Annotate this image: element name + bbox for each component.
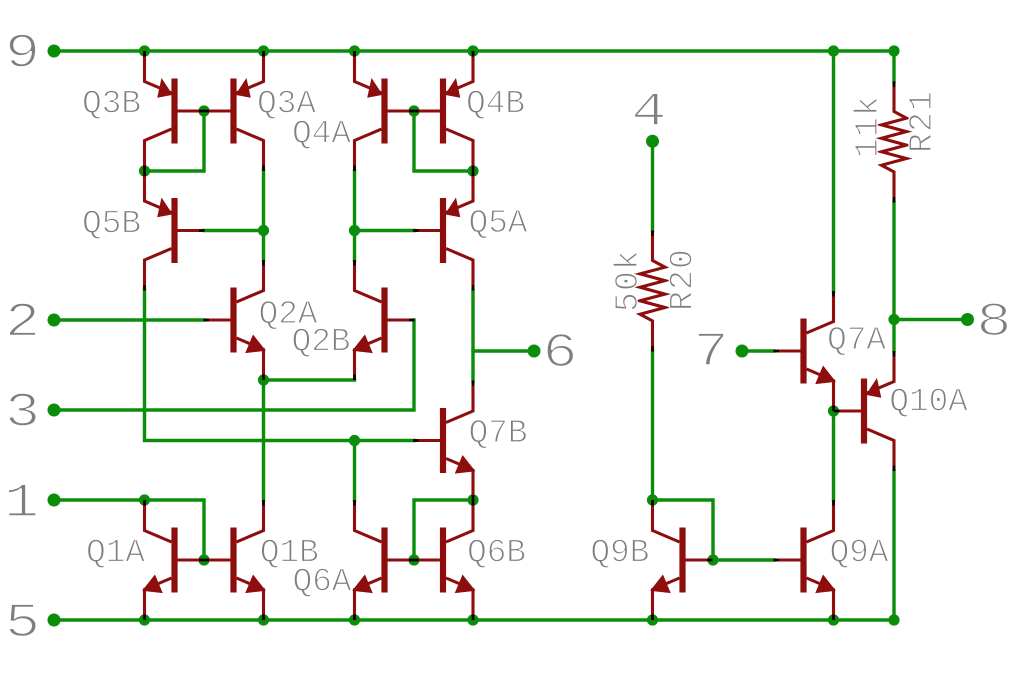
wire Q4 base tie to Q4B collector — [414, 111, 473, 171]
transistor Q2B — [354, 260, 415, 380]
junction at 144.5,51 — [139, 45, 150, 56]
svg-text:Q4B: Q4B — [466, 86, 525, 123]
junction at 144.5,171 — [139, 165, 150, 176]
wire pin 3 to Q2B base — [54, 320, 414, 410]
wire Q7A emitter to Q9A collector — [832, 411, 835, 500]
transistor Q3B — [145, 51, 205, 171]
junction at 833.5,620 — [828, 614, 839, 625]
svg-text:4: 4 — [631, 85, 666, 140]
node pin 4 — [646, 135, 659, 148]
junction at 652.5,620 — [647, 614, 658, 625]
junction at 263.5,230.5 — [258, 225, 269, 236]
node pin 7 — [736, 345, 749, 358]
resistor R20 — [640, 231, 665, 352]
wire Q4A collector to Q2B collector — [353, 171, 356, 260]
wire Q5A base to node — [355, 229, 415, 232]
junction at 833.5,411 — [828, 405, 839, 416]
transistor Q2A — [204, 260, 265, 380]
wire node to Q6A collector — [353, 441, 356, 501]
junction at 204,560 — [198, 554, 209, 565]
junction at 473,51 — [467, 45, 478, 56]
transistor Q1B — [204, 500, 265, 620]
svg-text:3: 3 — [5, 386, 40, 441]
wire node to pin 6 — [473, 349, 534, 352]
transistor Q10A — [834, 351, 894, 471]
wire Q10A collector down to rail 5 — [892, 471, 895, 620]
node pin 6 — [528, 345, 541, 358]
wire Q3 base tie to Q3B collector — [145, 111, 205, 171]
svg-text:50k: 50k — [610, 249, 647, 312]
svg-text:Q7B: Q7B — [469, 415, 528, 452]
junction at 414,560 — [408, 554, 419, 565]
wire R21 bottom to Q10A emitter — [892, 203, 895, 352]
wire R20 node to Q9 base junction — [653, 500, 714, 560]
resistor R21 — [882, 82, 907, 203]
transistor Q6B — [413, 500, 474, 620]
node pin 3 — [48, 404, 61, 417]
node pin 8 — [961, 313, 974, 326]
svg-text:Q10A: Q10A — [889, 384, 968, 421]
svg-text:Q5A: Q5A — [469, 205, 528, 242]
junction at 354.5,440.5 — [349, 435, 360, 446]
transistor Q4A — [355, 51, 415, 171]
wire Q5A collector to Q7B collector — [471, 291, 474, 381]
svg-text:7: 7 — [693, 325, 728, 380]
wire pin 7 to Q7A base — [742, 349, 774, 352]
svg-text:6: 6 — [542, 326, 577, 381]
wire node to pin 8 — [894, 318, 968, 321]
junction at 894,51 — [888, 45, 899, 56]
svg-text:Q6A: Q6A — [293, 564, 352, 601]
wire Q5B base to node — [204, 229, 264, 232]
svg-text:9: 9 — [5, 27, 40, 82]
wire Q9 base junction to Q9A base — [713, 558, 774, 561]
svg-text:5: 5 — [5, 596, 40, 651]
wire rail to R21 top — [892, 51, 895, 82]
junction at 144.5,500 — [139, 494, 150, 505]
node pin 5 — [48, 614, 61, 627]
transistor Q4B — [413, 51, 473, 171]
junction at 354.5,51 — [349, 45, 360, 56]
wire Q2A emitter to Q2B emitter — [264, 378, 355, 381]
transistor Q1A — [144, 500, 205, 620]
svg-text:Q6B: Q6B — [467, 535, 526, 572]
svg-text:Q4A: Q4A — [292, 116, 351, 153]
pin connection ticks — [145, 51, 895, 620]
junction at 414,111 — [408, 105, 419, 116]
junction at 473,171 — [467, 165, 478, 176]
node pin 2 — [48, 314, 61, 327]
svg-text:R20: R20 — [665, 248, 702, 311]
wire Q7B emitter to Q6 base junction — [414, 500, 473, 560]
svg-text:Q2B: Q2B — [292, 324, 351, 361]
wire net 9 top rail — [54, 49, 894, 52]
svg-text:Q9A: Q9A — [830, 535, 889, 572]
transistor Q5A — [413, 171, 473, 291]
transistor Q3A — [204, 51, 264, 171]
wire Q3A collector to Q2A collector — [262, 171, 265, 260]
transistor Q7B — [413, 381, 474, 501]
junction at 894,319.5 — [888, 314, 899, 325]
wire pin 1 to Q1 base junction — [54, 500, 204, 560]
junction at 713,560 — [707, 554, 718, 565]
junction at 354.5,620 — [349, 614, 360, 625]
node pin 9 — [48, 45, 61, 58]
wire pin 4 to R20 top — [651, 141, 654, 230]
wire net 5 bottom rail — [54, 618, 894, 621]
junction at 204,111 — [198, 105, 209, 116]
svg-text:Q1A: Q1A — [86, 535, 145, 572]
svg-text:1: 1 — [4, 476, 39, 531]
wire R20 bottom down — [651, 352, 654, 501]
svg-text:Q3B: Q3B — [82, 86, 141, 123]
svg-text:Q9B: Q9B — [590, 535, 649, 572]
junction at 652.5,500 — [647, 494, 658, 505]
transistor Q5B — [145, 171, 205, 291]
transistor Q6A — [354, 500, 415, 620]
junction at 144.5,620 — [139, 614, 150, 625]
junction at 263.5,620 — [258, 614, 269, 625]
junction at 263.5,380 — [258, 374, 269, 385]
wire V+ rail to Q7A collector — [832, 51, 835, 291]
junction at 473,620 — [467, 614, 478, 625]
svg-text:Q7A: Q7A — [827, 322, 886, 359]
transistor Q9A — [774, 500, 835, 620]
svg-text:Q5B: Q5B — [82, 206, 141, 243]
svg-text:8: 8 — [976, 295, 1011, 350]
junction at 833.5,51 — [828, 45, 839, 56]
svg-text:R21: R21 — [904, 90, 941, 153]
wire Q2 emitters to Q1B collector — [262, 380, 265, 500]
svg-text:2: 2 — [5, 296, 40, 351]
wire Q5B collector to Q7B base — [145, 291, 415, 441]
transistor Q9B — [652, 500, 713, 620]
transistor Q7A — [774, 291, 835, 411]
wire pin 2 to Q2A base — [54, 318, 204, 321]
node pin 1 — [48, 494, 61, 507]
svg-text:11k: 11k — [850, 95, 887, 158]
junction at 263.5,51 — [258, 45, 269, 56]
junction at 473,500 — [467, 494, 478, 505]
junction at 894,620 — [888, 614, 899, 625]
junction at 354.5,230.5 — [349, 225, 360, 236]
